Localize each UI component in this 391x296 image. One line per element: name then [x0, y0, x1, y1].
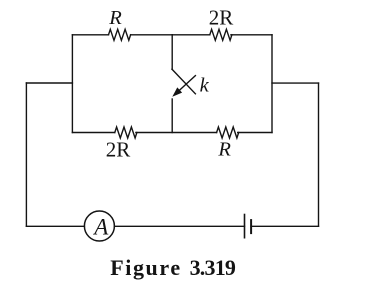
svg-text:2R: 2R — [106, 137, 131, 161]
wire: bottom bridge wire right of resistor R — [238, 132, 272, 134]
resistor R3 (value 2R, bottom left branch) — [115, 127, 137, 138]
svg-text:R: R — [108, 7, 122, 29]
switch S1 (key k): blade — [172, 69, 196, 94]
wire: bottom bridge wire left of resistor 2R — [72, 132, 114, 134]
resistor R4 (value R, bottom right branch) — [217, 127, 239, 138]
wire: bridge right vertical side — [271, 35, 273, 133]
svg-text:A: A — [92, 215, 109, 240]
svg-text:3.319: 3.319 — [190, 255, 236, 280]
wire: outer left vertical — [25, 83, 27, 226]
wire: bottom wire, right segment from battery — [251, 225, 318, 227]
battery B1: positive plate (long) — [244, 215, 246, 238]
wire: bridge left vertical side — [71, 35, 73, 133]
wire: bottom bridge wire between resistors — [136, 132, 217, 134]
wire: bottom wire, middle segment ammeter to battery — [114, 225, 244, 227]
wire: right connector from bridge right node to outer loop — [272, 82, 319, 84]
wire: left connector from outer loop to bridge left node — [26, 82, 72, 84]
wire: outer right vertical — [318, 83, 320, 226]
svg-text:2R: 2R — [209, 6, 234, 30]
wire: middle branch upper vertical — [171, 35, 173, 69]
resistor R2 (value 2R, top right branch) — [210, 29, 232, 40]
wire: top wire from middle node to resistor 2R — [172, 34, 210, 36]
wire: top wire left of resistor R — [72, 34, 108, 36]
wire: bottom wire, left segment to ammeter — [26, 225, 84, 227]
svg-text:Figure: Figure — [110, 255, 182, 280]
switch S1 (key k): arrowhead — [172, 87, 182, 96]
wire: top wire right of resistor 2R — [231, 34, 272, 36]
svg-text:R: R — [217, 139, 231, 161]
battery B1: negative plate (short) — [250, 220, 252, 233]
resistor R1 (value R, top left branch) — [109, 29, 131, 40]
svg-text:k: k — [200, 75, 210, 97]
wire: top wire between resistor R and middle node — [131, 34, 173, 36]
ammeter A1: circle body — [84, 211, 114, 241]
switch S1 (key k): arrow shaft — [180, 76, 196, 90]
wire: middle branch lower vertical — [171, 99, 173, 133]
